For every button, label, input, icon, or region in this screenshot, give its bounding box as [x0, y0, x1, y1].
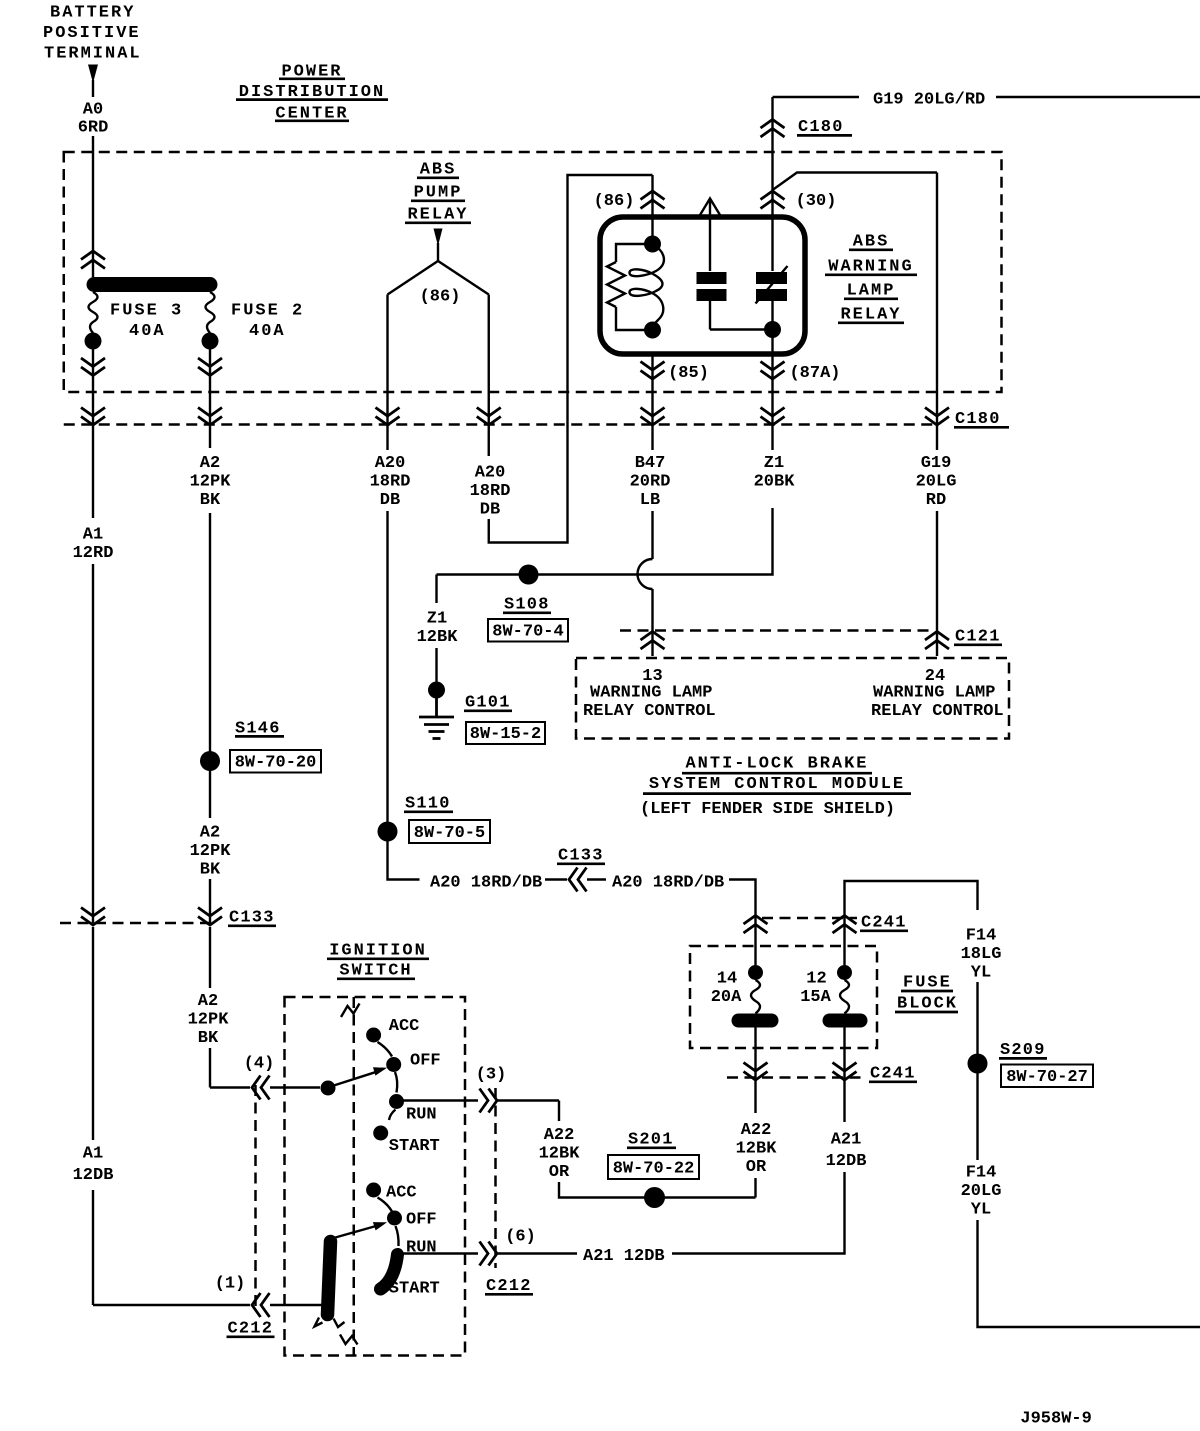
connector C121 dashed line — [620, 629, 935, 632]
S209 reference box 8W-70-27 — [1001, 1065, 1093, 1088]
svg-text:8W-70-5: 8W-70-5 — [414, 824, 485, 843]
svg-text:20BK: 20BK — [754, 473, 796, 492]
svg-text:(3): (3) — [476, 1065, 507, 1084]
svg-text:(85): (85) — [668, 364, 709, 383]
connector C241 lower dashed line — [727, 1076, 865, 1079]
fuse 12 element — [823, 965, 868, 1028]
svg-text:A20 18RD/DB: A20 18RD/DB — [612, 873, 724, 892]
wire G19 20LG RD label — [916, 454, 957, 510]
fuse block dashed box — [690, 946, 877, 1048]
deck2 ACC contact — [366, 1183, 417, 1203]
deck1 START contact — [373, 1126, 440, 1157]
svg-text:12RD: 12RD — [73, 544, 114, 563]
svg-text:(30): (30) — [796, 192, 837, 211]
C180 top label — [797, 118, 852, 137]
svg-text:A2: A2 — [200, 823, 220, 842]
svg-text:(6): (6) — [505, 1227, 536, 1246]
battery terminal arrow — [88, 65, 98, 98]
svg-text:40A: 40A — [249, 322, 286, 341]
svg-text:RELAY CONTROL: RELAY CONTROL — [871, 702, 1004, 721]
svg-text:RD: RD — [926, 491, 946, 510]
fuse 12 feed bridge from F14 — [845, 881, 978, 965]
relay pin 30 wire from top — [761, 97, 785, 271]
svg-text:20RD: 20RD — [630, 473, 671, 492]
svg-text:G19 20LG/RD: G19 20LG/RD — [873, 91, 985, 110]
svg-text:FUSE: FUSE — [903, 973, 952, 992]
svg-text:12BK: 12BK — [736, 1140, 778, 1159]
relay coil loops — [629, 244, 663, 330]
C133 label — [228, 908, 276, 927]
svg-text:J958W-9: J958W-9 — [1020, 1410, 1091, 1429]
C133 label inline — [557, 846, 605, 865]
svg-text:12DB: 12DB — [826, 1152, 867, 1171]
svg-text:15A: 15A — [800, 988, 831, 1007]
C241 upper label — [860, 913, 908, 932]
svg-text:START: START — [389, 1137, 440, 1156]
ABS control module dashed box — [576, 658, 1009, 739]
deck2 linkage hooks — [315, 1318, 358, 1345]
deck1 wiper arrow to OFF — [328, 1067, 388, 1087]
svg-text:12BK: 12BK — [539, 1145, 581, 1164]
deck1 arc RUN-START — [389, 1110, 396, 1121]
wire A21 down to corner — [672, 1172, 845, 1254]
svg-text:(1): (1) — [215, 1275, 246, 1294]
svg-text:12BK: 12BK — [417, 628, 459, 647]
connector C133 dashed line — [60, 922, 214, 925]
svg-text:(LEFT FENDER SIDE SHIELD): (LEFT FENDER SIDE SHIELD) — [640, 800, 895, 819]
deck2 RUN-START contact bar — [381, 1255, 398, 1290]
splice S209 — [968, 1054, 988, 1074]
wire B47 20RD LB label — [630, 454, 671, 510]
svg-text:A2: A2 — [198, 992, 218, 1011]
module pin 13 text — [583, 683, 716, 721]
svg-text:12DB: 12DB — [73, 1166, 114, 1185]
S110 reference box 8W-70-5 — [409, 820, 490, 843]
ABS warning lamp relay box — [600, 217, 805, 354]
svg-text:(86): (86) — [420, 287, 461, 306]
connector C241 upper dashed line — [762, 917, 857, 920]
wire A20 below S110 to corner — [388, 841, 420, 880]
wire A0 6RD label — [78, 101, 109, 138]
ABS pump relay title — [405, 160, 471, 224]
deck1 RUN contact — [389, 1094, 437, 1124]
ABS pump relay pointer arrow — [434, 229, 443, 262]
relay pin 85 wire B47 — [641, 354, 665, 450]
bus bar — [87, 277, 218, 292]
wire B47 to module with hop over S108 — [638, 511, 665, 656]
wire A20 label first — [370, 454, 411, 510]
deck2 wiper bar — [328, 1242, 331, 1315]
svg-text:BK: BK — [200, 491, 221, 510]
deck1 OFF contact — [386, 1051, 440, 1072]
wire A2 lower label — [188, 992, 230, 1048]
wire A20 to fuse block — [729, 880, 756, 966]
wire from pin 30 over to G19 drop — [773, 173, 938, 191]
wire A22 down to S201 line — [754, 1178, 756, 1198]
wire A1 to C133 — [81, 564, 105, 925]
wire A2 12PK BK — [198, 349, 222, 448]
C241 upper chevrons — [744, 916, 857, 934]
svg-text:20LG: 20LG — [916, 473, 957, 492]
svg-text:20LG: 20LG — [961, 1182, 1002, 1201]
svg-text:ANTI-LOCK BRAKE: ANTI-LOCK BRAKE — [685, 755, 868, 774]
wire G19 20LG/RD top — [773, 91, 1200, 110]
svg-text:BK: BK — [198, 1029, 219, 1048]
svg-text:OR: OR — [746, 1158, 767, 1177]
svg-text:FUSE 3: FUSE 3 — [110, 301, 183, 320]
svg-text:B47: B47 — [635, 454, 666, 473]
svg-text:G19: G19 — [921, 454, 952, 473]
svg-text:18RD: 18RD — [470, 482, 511, 501]
svg-text:RELAY CONTROL: RELAY CONTROL — [583, 702, 716, 721]
splice S108 — [519, 565, 539, 585]
ground G101 pin dot — [428, 648, 445, 699]
wire from RUN deck2 to pin 6 — [400, 1242, 577, 1266]
wire A22 to S201 line — [559, 1182, 756, 1198]
svg-text:12PK: 12PK — [188, 1010, 230, 1029]
svg-text:OFF: OFF — [406, 1210, 437, 1229]
splice S110 — [378, 822, 398, 842]
deck1 ACC contact — [366, 1017, 419, 1043]
svg-text:Z1: Z1 — [427, 609, 447, 628]
svg-text:RUN: RUN — [406, 1105, 437, 1124]
wire A20 to relay 86 loop — [489, 175, 653, 543]
wire F14 18LG YL label — [961, 926, 1002, 982]
svg-text:A20 18RD/DB: A20 18RD/DB — [430, 873, 542, 892]
ignition switch divider dashed line — [353, 997, 356, 1356]
deck2 wiper arrow to OFF — [330, 1222, 387, 1239]
svg-text:DB: DB — [480, 500, 500, 519]
wire A1 to ignition switch pin 1 — [93, 927, 330, 1317]
battery positive terminal label — [43, 4, 142, 64]
wire F14 below S209 — [976, 1073, 978, 1160]
svg-text:BLOCK: BLOCK — [897, 994, 958, 1013]
svg-text:(87A): (87A) — [789, 364, 840, 383]
svg-text:40A: 40A — [129, 322, 166, 341]
C212 right label — [485, 1277, 533, 1296]
ignition switch dashed box — [285, 997, 466, 1356]
power distribution center title — [236, 62, 388, 123]
anti-lock brake system control module title — [640, 755, 911, 819]
ABS warning lamp relay title — [825, 232, 917, 324]
relay pin 87 open arrow — [700, 199, 720, 272]
wire A0 into PDC — [92, 136, 94, 277]
S110 label — [404, 794, 453, 813]
svg-text:F14: F14 — [966, 926, 997, 945]
wire A1 12RD label — [73, 525, 114, 563]
wire A22 from fuse 14 — [744, 1028, 768, 1114]
splice S201 — [644, 1187, 665, 1208]
svg-text:8W-70-4: 8W-70-4 — [492, 623, 563, 642]
fuse 14 label — [711, 969, 742, 1007]
wire A20 label second — [470, 463, 511, 519]
svg-text:WARNING LAMP: WARNING LAMP — [590, 683, 712, 702]
relay pin 86 wire — [641, 175, 665, 217]
wire Z1 20BK label — [754, 454, 796, 492]
deck1 common contact dot — [321, 1081, 336, 1096]
wire A20 18RD DB left leg — [376, 295, 400, 451]
S108 reference box 8W-70-4 — [488, 619, 568, 642]
svg-text:12: 12 — [806, 969, 826, 988]
C133 in-line connector — [545, 868, 606, 892]
deck2 OFF contact — [387, 1210, 437, 1229]
C180 right label — [954, 410, 1009, 429]
relay 87A junction dot — [764, 321, 781, 338]
C212 left dashed line — [254, 1085, 257, 1312]
C241 lower label — [869, 1064, 917, 1083]
G101 reference box 8W-15-2 — [466, 722, 545, 744]
svg-text:6RD: 6RD — [78, 119, 109, 138]
svg-text:OR: OR — [549, 1163, 570, 1182]
svg-text:(86): (86) — [594, 192, 635, 211]
C212 left label — [227, 1319, 275, 1338]
wire F14 20LG YL label — [961, 1163, 1002, 1219]
wire A2 into ignition switch pin 4 — [210, 927, 320, 1100]
wire A2 label upper — [190, 454, 232, 510]
svg-text:A22: A22 — [544, 1126, 575, 1145]
fuse 14 element — [732, 965, 779, 1028]
svg-text:TERMINAL: TERMINAL — [44, 45, 142, 64]
svg-text:OFF: OFF — [410, 1051, 441, 1070]
svg-text:8W-15-2: 8W-15-2 — [470, 725, 541, 744]
wire Z1 12BK label — [417, 609, 459, 647]
ABS pump relay coil tent — [388, 261, 489, 295]
svg-text:YL: YL — [971, 1200, 991, 1219]
S146 label — [235, 719, 284, 738]
relay NC contact — [756, 266, 788, 304]
svg-text:DB: DB — [380, 491, 400, 510]
svg-text:WARNING LAMP: WARNING LAMP — [873, 683, 995, 702]
svg-text:(4): (4) — [244, 1055, 275, 1074]
S201 reference box 8W-70-22 — [608, 1155, 699, 1179]
wire A22 12BK OR label right — [736, 1121, 778, 1177]
deck1 arc ACC-OFF — [378, 1042, 393, 1057]
svg-text:A21 12DB: A21 12DB — [583, 1247, 665, 1266]
svg-text:SYSTEM CONTROL MODULE: SYSTEM CONTROL MODULE — [649, 775, 905, 794]
S108 label — [503, 595, 551, 614]
svg-text:18LG: 18LG — [961, 945, 1002, 964]
wire G19 drop to module — [925, 173, 949, 657]
wire A22 down from pin 3 — [558, 1101, 560, 1122]
wire F14 to page edge — [978, 1220, 1200, 1327]
ground symbol — [419, 696, 454, 739]
deck1 arc OFF-RUN — [395, 1072, 397, 1093]
deck2 arc ACC-OFF — [378, 1198, 393, 1212]
wire F14 to S209 — [976, 982, 978, 1056]
svg-text:FUSE 2: FUSE 2 — [231, 301, 304, 320]
G101 label — [464, 693, 512, 712]
svg-text:14: 14 — [717, 969, 737, 988]
svg-text:A1: A1 — [83, 525, 103, 544]
svg-text:POSITIVE: POSITIVE — [43, 24, 141, 43]
wire A2 label lower-mid — [190, 823, 232, 879]
svg-text:18RD: 18RD — [370, 473, 411, 492]
relay resistor branch — [607, 244, 653, 330]
wire A2 to S146 — [209, 513, 211, 753]
wire A20 down to S110 — [386, 511, 388, 824]
C121 label — [954, 627, 1002, 646]
svg-text:BK: BK — [200, 860, 221, 879]
wire A1 12DB label — [73, 1144, 114, 1185]
wire A21 12DB label — [826, 1130, 867, 1171]
C212 right dashed line — [494, 1088, 497, 1268]
svg-text:20A: 20A — [711, 988, 742, 1007]
svg-text:A2: A2 — [200, 454, 220, 473]
wire A21 from fuse 12 — [833, 1028, 857, 1123]
deck1 linkage squiggle — [341, 1004, 360, 1018]
svg-text:Z1: Z1 — [764, 454, 784, 473]
connector chevron on A0 — [81, 251, 105, 269]
svg-text:8W-70-22: 8W-70-22 — [613, 1160, 695, 1179]
wire A2 below S146 — [209, 770, 211, 818]
fuse 3 element — [85, 292, 102, 350]
wire A22 12BK OR label left — [539, 1126, 581, 1182]
svg-text:A21: A21 — [831, 1130, 862, 1149]
fuse block title — [895, 973, 958, 1013]
fuse 12 label — [800, 969, 831, 1007]
fuse 3 label — [110, 301, 183, 341]
svg-text:A0: A0 — [83, 101, 103, 120]
module pin 24 text — [871, 683, 1004, 721]
svg-text:BATTERY: BATTERY — [50, 4, 135, 23]
svg-text:ACC: ACC — [389, 1017, 420, 1036]
wire A20 right leg of pump relay — [477, 295, 501, 457]
svg-text:A22: A22 — [741, 1121, 772, 1140]
wire A1 12RD — [81, 349, 105, 518]
svg-text:8W-70-20: 8W-70-20 — [235, 754, 317, 773]
S209 label — [999, 1041, 1047, 1060]
svg-text:A20: A20 — [375, 454, 406, 473]
relay capacitor — [697, 272, 773, 330]
relay coil junction dots — [644, 236, 661, 339]
fuse 2 element — [202, 292, 219, 350]
svg-text:12PK: 12PK — [190, 473, 232, 492]
svg-text:ACC: ACC — [386, 1183, 417, 1202]
ignition switch title — [327, 941, 429, 980]
svg-text:LB: LB — [640, 491, 660, 510]
fuse 2 label — [231, 301, 304, 341]
relay coil wire — [651, 217, 653, 250]
S201 label — [627, 1130, 676, 1149]
deck2 arc OFF-RUN — [396, 1226, 399, 1246]
wire from RUN to pin 3 — [400, 1089, 559, 1113]
relay pin 87A wire Z1 — [761, 301, 785, 450]
svg-text:YL: YL — [971, 963, 991, 982]
connector C180 dashed line — [64, 423, 937, 426]
S146 reference box 8W-70-20 — [230, 750, 321, 773]
svg-text:12PK: 12PK — [190, 842, 232, 861]
svg-text:8W-70-27: 8W-70-27 — [1006, 1068, 1088, 1087]
splice S146 — [200, 751, 220, 771]
wire A2 to C133 — [198, 879, 222, 925]
svg-text:F14: F14 — [966, 1163, 997, 1182]
wire Z1 12BK to ground — [435, 575, 437, 604]
power distribution center dashed box — [64, 152, 1002, 392]
svg-text:A1: A1 — [83, 1144, 103, 1163]
svg-text:A20: A20 — [475, 463, 506, 482]
svg-text:START: START — [389, 1279, 440, 1298]
wire Z1 down to S108 line — [437, 508, 773, 575]
